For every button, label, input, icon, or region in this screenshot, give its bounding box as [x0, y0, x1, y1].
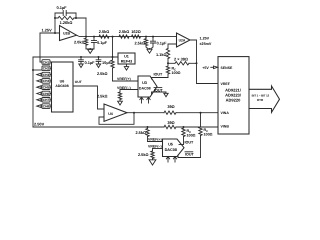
resistor 2.5k U3 VREF(-) to gnd [119, 90, 121, 93]
svg-text:2.5kΩ: 2.5kΩ [97, 93, 108, 98]
svg-text:U2A: U2A [179, 38, 186, 42]
svg-text:U2B: U2B [63, 31, 70, 35]
svg-text:1.25V: 1.25V [42, 27, 53, 32]
svg-text:0.1µF: 0.1µF [85, 60, 96, 65]
resistor 162ohm rail [132, 35, 141, 38]
wire U5 IOUTbar [178, 156, 201, 158]
svg-text:U4: U4 [108, 112, 113, 116]
voltage reference U1 REF43 [118, 53, 135, 64]
resistor RC 100ohm (VINA leg) [200, 113, 202, 127]
resistor RC 100ohm (U3 IOUT leg) [166, 66, 169, 74]
wire U3 IOUTbar [152, 92, 167, 94]
node CH1 input terminal [42, 60, 50, 65]
svg-text:U3: U3 [142, 81, 147, 85]
ground U3 VREF(-) [118, 101, 123, 105]
svg-text:CH7: CH7 [43, 98, 50, 102]
svg-text:2.0kΩ: 2.0kΩ [74, 40, 85, 45]
svg-text:2 × 39Ω: 2 × 39Ω [174, 57, 188, 62]
node CH2 input terminal [42, 66, 50, 71]
svg-text:OUT: OUT [75, 80, 82, 84]
svg-text:CH1: CH1 [43, 60, 50, 64]
ground U3 IOUTbar [164, 93, 168, 97]
wire divider tap down to REF43 rail [112, 37, 114, 57]
svg-text:39Ω: 39Ω [167, 104, 174, 109]
capacitor 0.1uF shunt at U2B output [93, 37, 95, 49]
svg-text:CH2: CH2 [43, 67, 50, 71]
ground at U2B output RC [86, 48, 94, 50]
svg-text:1.25V: 1.25V [200, 37, 210, 41]
svg-text:0.1µF: 0.1µF [97, 40, 108, 45]
svg-text:2.5kΩ: 2.5kΩ [135, 130, 146, 135]
svg-text:BIT 1 – BIT 12: BIT 1 – BIT 12 [252, 94, 270, 98]
resistor 2.5k U5 VREF(-) to gnd [152, 149, 154, 152]
wire U2B output rail [77, 35, 177, 36]
node output bus BIT1-BIT12/OTR [249, 86, 280, 112]
wire U5 VREF(-) [153, 148, 163, 150]
wire U2A output / VREF net [190, 40, 218, 84]
node CH6 input terminal [42, 91, 50, 96]
svg-text:AD9220: AD9220 [226, 98, 241, 103]
U5 negative supply pins [167, 157, 169, 163]
node CH4 input terminal [42, 79, 50, 84]
DAC U5 DAC08 [163, 139, 185, 157]
wire cap stubs [55, 13, 76, 18]
resistor 2x39ohm [168, 62, 197, 64]
wire 2.5V rail y57 [33, 56, 118, 58]
node CH7 input terminal [42, 98, 50, 103]
op-amp U4 buffer [104, 104, 127, 121]
svg-text:CH6: CH6 [43, 92, 50, 96]
wire mux OUT to U4 [73, 86, 104, 109]
ground REF43 [126, 64, 128, 67]
svg-text:OTR: OTR [257, 98, 264, 102]
svg-text:SENSE: SENSE [221, 66, 234, 70]
wire CH1 feed (1.25V down to CH1) [40, 33, 42, 62]
svg-text:VREF(+): VREF(+) [148, 138, 162, 142]
svg-text:2.5kΩ: 2.5kΩ [119, 29, 130, 34]
wire CH2 feed [33, 69, 42, 71]
svg-text:1.1kΩ: 1.1kΩ [156, 52, 167, 57]
svg-text:2.50V: 2.50V [34, 122, 45, 127]
svg-text:IOUT: IOUT [154, 88, 164, 92]
svg-text:VINB: VINB [221, 124, 230, 128]
wire CH3 external input arrow [37, 73, 41, 76]
svg-text:2.5kΩ: 2.5kΩ [134, 40, 145, 45]
resistor 2.5k shunt before U2A [144, 39, 147, 46]
wire U3 IOUT [152, 78, 169, 80]
ground U5 VREF(-) [149, 160, 156, 165]
wire feedback left vertical [54, 18, 56, 33]
svg-text:2.5kΩ: 2.5kΩ [99, 29, 110, 34]
resistor 2.5k to U5 VREF(+) [146, 129, 149, 137]
wire CH7 external input arrow [37, 98, 41, 101]
svg-text:0.1µF: 0.1µF [57, 5, 68, 10]
svg-text:100Ω: 100Ω [204, 133, 213, 137]
wire CH6 external input arrow [37, 92, 41, 95]
wire 1.25V to U2B input [40, 32, 60, 34]
resistor 2.5k to U3 VREF(+) [111, 60, 114, 68]
svg-text:+5V: +5V [202, 66, 209, 70]
svg-text:IOUT: IOUT [185, 153, 195, 157]
svg-text:100Ω: 100Ω [187, 134, 196, 138]
ADC U2 AD9221/AD9223/AD9220 [218, 57, 249, 134]
svg-text:ADG608: ADG608 [55, 84, 68, 88]
multiplexer U6 ADG608 [52, 62, 74, 112]
DAC U3 DAC08 [138, 76, 157, 97]
wire CH4 external input arrow [37, 80, 41, 83]
U3 negative supply pins [141, 97, 143, 103]
resistor 2.0k shunt [84, 38, 87, 45]
resistor 1.1k feedback [166, 49, 169, 59]
capacitor 10uF bypass on 2.5V rail [98, 57, 100, 64]
wire VINA net [127, 112, 218, 114]
capacitor 0.1uF bypass on 2.5V rail [80, 57, 82, 64]
svg-text:U1: U1 [124, 55, 129, 59]
wire feedback right vertical to output rail [85, 18, 87, 37]
svg-text:162Ω: 162Ω [131, 29, 140, 34]
resistor 2.5k rail 1 [99, 35, 109, 38]
wire 2.5V left drop [32, 57, 34, 127]
svg-text:1.26kΩ: 1.26kΩ [60, 20, 73, 25]
op-amp U2A [177, 33, 191, 47]
capacitor 0.1uF shunt before U2A [151, 37, 154, 49]
svg-text:IOUT: IOUT [185, 140, 195, 144]
svg-text:CH8: CH8 [43, 104, 50, 108]
svg-text:DAC08: DAC08 [139, 87, 151, 91]
resistor 1.26k feedback [58, 16, 74, 19]
svg-text:DAC08: DAC08 [165, 148, 177, 152]
svg-text:CH3: CH3 [43, 73, 50, 77]
ground before U2A [149, 48, 151, 50]
svg-text:VREF: VREF [221, 82, 231, 86]
node CH8 input terminal [42, 104, 50, 109]
svg-text:REF43: REF43 [121, 59, 132, 63]
svg-text:2.5kΩ: 2.5kΩ [138, 152, 149, 157]
svg-text:IOUT: IOUT [154, 73, 164, 77]
node CH5 input terminal [42, 85, 50, 90]
wire U3 VREF(+) [113, 80, 139, 82]
resistor 2.5k rail 2 [119, 35, 129, 38]
resistor 39ohm VINB [164, 125, 176, 128]
wire U3 VREF(-) [120, 89, 138, 91]
svg-text:100Ω: 100Ω [172, 71, 181, 75]
wire U5 IOUT [179, 144, 184, 146]
svg-text:±25mV: ±25mV [200, 42, 212, 46]
wire CH8 external input arrow [37, 105, 41, 108]
svg-text:CH5: CH5 [43, 86, 50, 90]
svg-text:39Ω: 39Ω [167, 120, 174, 125]
resistor RC 100ohm (VINB leg) [182, 128, 185, 137]
svg-text:CH4: CH4 [43, 79, 50, 83]
wire CH5 external input arrow [37, 86, 41, 89]
svg-text:U5: U5 [168, 143, 173, 147]
resistor 39ohm VINA [164, 111, 176, 114]
svg-text:VINA: VINA [221, 111, 230, 115]
svg-text:2.5kΩ: 2.5kΩ [97, 71, 108, 76]
node CH3 input terminal [42, 72, 50, 77]
wire U4 feedback loop [99, 113, 134, 125]
wire U2A inverting input [168, 44, 177, 49]
op-amp U2B [60, 26, 77, 41]
svg-text:0.1µF: 0.1µF [157, 40, 168, 45]
